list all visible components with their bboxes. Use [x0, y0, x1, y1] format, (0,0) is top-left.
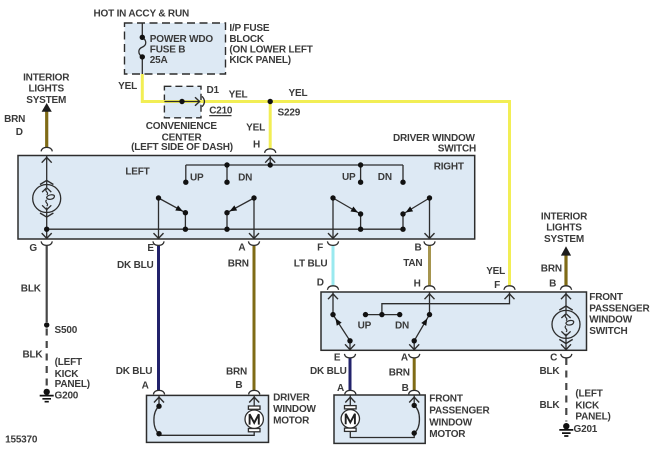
svg-text:PASSENGER: PASSENGER	[429, 406, 490, 417]
svg-text:H: H	[414, 279, 421, 290]
svg-text:UP: UP	[342, 172, 356, 183]
svg-text:B: B	[549, 279, 556, 290]
svg-text:LIGHTS: LIGHTS	[546, 223, 582, 234]
svg-text:155370: 155370	[5, 435, 38, 446]
svg-text:E: E	[147, 243, 154, 254]
svg-text:E: E	[334, 353, 341, 364]
svg-text:MOTOR: MOTOR	[429, 429, 466, 440]
svg-text:WINDOW: WINDOW	[273, 404, 316, 415]
svg-text:H: H	[253, 140, 260, 151]
svg-text:BLK: BLK	[23, 349, 44, 360]
svg-text:LEFT: LEFT	[125, 167, 149, 178]
svg-text:DN: DN	[395, 320, 409, 331]
svg-text:D: D	[16, 127, 23, 138]
svg-text:SWITCH: SWITCH	[438, 144, 476, 155]
svg-text:KICK: KICK	[55, 369, 80, 380]
svg-text:YEL: YEL	[289, 88, 308, 99]
svg-text:(LEFT: (LEFT	[55, 357, 82, 368]
svg-text:A: A	[238, 243, 245, 254]
svg-text:D1: D1	[207, 85, 220, 96]
svg-text:PANEL): PANEL)	[55, 379, 90, 390]
svg-text:LIGHTS: LIGHTS	[28, 84, 64, 95]
svg-text:LT BLU: LT BLU	[294, 258, 328, 269]
svg-text:G201: G201	[574, 424, 598, 435]
svg-text:HOT IN ACCY & RUN: HOT IN ACCY & RUN	[94, 8, 190, 19]
svg-text:BLK: BLK	[21, 284, 42, 295]
svg-text:BRN: BRN	[226, 367, 247, 378]
svg-text:UP: UP	[358, 320, 372, 331]
svg-text:BRN: BRN	[228, 259, 249, 270]
svg-text:DN: DN	[378, 172, 392, 183]
svg-text:C: C	[550, 353, 557, 364]
svg-text:POWER WDO: POWER WDO	[150, 34, 214, 45]
svg-text:INTERIOR: INTERIOR	[541, 211, 588, 222]
svg-text:A: A	[337, 383, 344, 394]
svg-text:INTERIOR: INTERIOR	[23, 73, 70, 84]
svg-text:DK BLU: DK BLU	[117, 260, 154, 271]
svg-text:S229: S229	[278, 108, 301, 119]
svg-text:PASSENGER: PASSENGER	[589, 303, 650, 314]
svg-text:B: B	[414, 243, 421, 254]
svg-text:KICK PANEL): KICK PANEL)	[229, 55, 291, 66]
svg-text:F: F	[494, 280, 500, 291]
svg-text:TAN: TAN	[403, 258, 422, 269]
svg-text:YEL: YEL	[246, 123, 265, 134]
svg-text:BRN: BRN	[4, 114, 25, 125]
svg-text:B: B	[235, 380, 242, 391]
svg-text:DK BLU: DK BLU	[310, 366, 347, 377]
svg-text:SYSTEM: SYSTEM	[544, 234, 584, 245]
svg-text:DRIVER: DRIVER	[273, 393, 311, 404]
svg-text:SYSTEM: SYSTEM	[26, 95, 66, 106]
svg-text:DK BLU: DK BLU	[116, 366, 153, 377]
svg-text:BLK: BLK	[539, 366, 560, 377]
svg-text:BLK: BLK	[539, 400, 560, 411]
svg-text:KICK: KICK	[575, 401, 600, 412]
svg-text:YEL: YEL	[118, 81, 137, 92]
svg-text:PANEL): PANEL)	[575, 412, 610, 423]
svg-text:YEL: YEL	[486, 266, 505, 277]
svg-text:SWITCH: SWITCH	[589, 326, 627, 337]
svg-text:I/P FUSE: I/P FUSE	[229, 23, 269, 34]
svg-text:FRONT: FRONT	[589, 292, 623, 303]
svg-text:RIGHT: RIGHT	[434, 161, 464, 172]
svg-text:DN: DN	[238, 172, 252, 183]
svg-text:BRN: BRN	[389, 368, 410, 379]
svg-text:(LEFT SIDE OF DASH): (LEFT SIDE OF DASH)	[131, 142, 233, 153]
svg-text:MOTOR: MOTOR	[273, 415, 310, 426]
svg-text:A: A	[401, 353, 408, 364]
svg-text:C210: C210	[209, 106, 233, 117]
svg-text:B: B	[402, 383, 409, 394]
svg-text:G200: G200	[55, 391, 79, 402]
svg-text:CONVENIENCE: CONVENIENCE	[146, 121, 218, 132]
svg-text:WINDOW: WINDOW	[429, 417, 472, 428]
svg-text:S500: S500	[55, 325, 78, 336]
svg-text:G: G	[29, 243, 37, 254]
svg-text:UP: UP	[190, 172, 204, 183]
svg-text:(LEFT: (LEFT	[575, 389, 602, 400]
svg-text:D: D	[317, 277, 324, 288]
svg-text:YEL: YEL	[229, 89, 248, 100]
svg-text:F: F	[317, 243, 323, 254]
svg-text:BRN: BRN	[541, 263, 562, 274]
svg-text:FRONT: FRONT	[429, 394, 463, 405]
svg-text:25A: 25A	[150, 55, 168, 66]
svg-text:WINDOW: WINDOW	[589, 315, 632, 326]
svg-text:BLOCK: BLOCK	[229, 34, 265, 45]
svg-text:A: A	[142, 381, 149, 392]
